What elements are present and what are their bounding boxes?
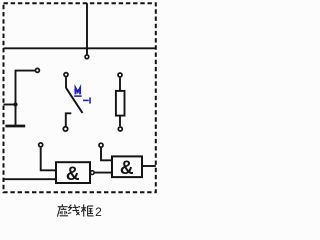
- svg-text:&: &: [66, 164, 80, 185]
- svg-text:&: &: [120, 158, 134, 179]
- svg-text:2: 2: [95, 205, 102, 219]
